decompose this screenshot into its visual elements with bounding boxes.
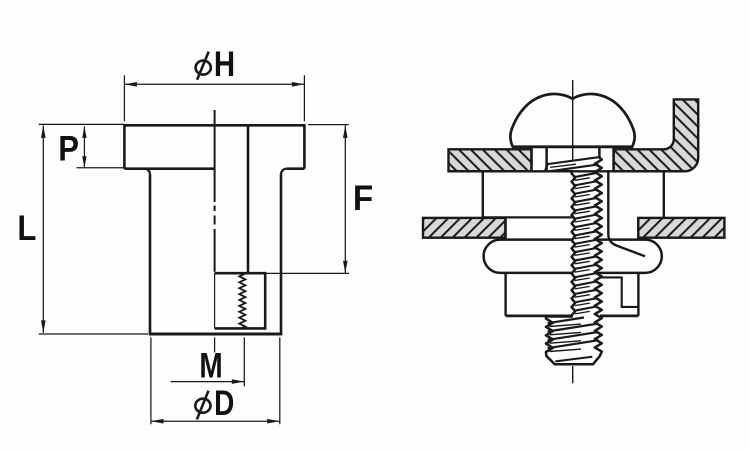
extension line M right below body — [243, 337, 245, 386]
body bottom edge — [149, 333, 283, 336]
dimension M arrow line (arrow at right end) — [171, 381, 245, 383]
svg-text:M: M — [199, 346, 222, 386]
upper bracket plate left piece (hatched section) — [449, 149, 532, 171]
upper bracket plate right piece with L-bend (hatched section) — [614, 99, 699, 171]
extension line phiD left below body — [150, 337, 152, 424]
internal thread zigzag symbol — [239, 273, 245, 328]
rivet nut flange left edge (installed view) — [482, 171, 484, 217]
pan head screw dome outline — [510, 94, 634, 147]
nut body wall left through panel hole — [504, 217, 506, 316]
extension line phiH right — [303, 75, 305, 121]
flange underside left segment with fillet into body wall — [124, 167, 214, 170]
centerline of left view (dash-dot) — [214, 110, 216, 272]
svg-text:H: H — [214, 44, 235, 83]
extension line phiD right below body — [279, 337, 281, 424]
bracket hole left edge stub — [530, 147, 532, 171]
dimension L arrow line — [42, 125, 44, 333]
screw head bearing base line — [512, 145, 633, 148]
lower panel left piece (hatched section) — [423, 218, 505, 238]
extension line P bottom (flange underside produced left) — [77, 167, 125, 169]
assembly centerline upper segment — [572, 80, 574, 160]
deformed bulge of rivet nut (stadium) — [484, 240, 662, 273]
screw shank and thread profile (white fill) — [546, 147, 602, 364]
extension line M left (centerline produced down) — [214, 337, 216, 352]
svg-text:L: L — [17, 210, 36, 249]
extension line L bottom (body bottom produced left) — [39, 333, 148, 335]
rivet nut flange right edge (installed view) — [663, 171, 665, 218]
extension line phiH left — [123, 75, 125, 121]
nut internal thread relief step (section right half) — [600, 277, 638, 307]
extension line F bottom (thread start produced right) — [265, 272, 349, 274]
flange underside right segment with fillet into body wall — [287, 167, 305, 170]
nut bottom edge left of screw — [506, 314, 573, 317]
bore right wall (half section) — [247, 125, 250, 273]
assembly centerline lower segment — [572, 366, 574, 383]
dimension F arrow line — [344, 125, 346, 273]
bracket hole right edge stub — [612, 147, 614, 171]
bracket bottom / flange top line — [449, 170, 685, 172]
svg-text:F: F — [353, 179, 373, 218]
label phiD — [195, 399, 210, 413]
threaded section box — [215, 273, 266, 328]
dimension P arrow line — [83, 126, 85, 167]
flange underside / lower panel seat line (visible left of screw) — [483, 216, 573, 218]
svg-text:D: D — [214, 383, 234, 423]
rivet nut flange outline (left view) — [124, 125, 304, 168]
nut bottom edge right of screw — [600, 314, 638, 317]
label phiH — [196, 61, 211, 75]
extension line top-left (flange top produced left) — [39, 123, 125, 125]
dimension phiH arrow line — [124, 83, 304, 85]
svg-text:P: P — [58, 130, 79, 169]
screw thread crest lines — [548, 157, 598, 164]
dimension phiD arrow line — [151, 420, 280, 422]
extension line F top (flange top produced right) — [308, 124, 349, 126]
lower panel right piece (hatched section) — [638, 218, 724, 238]
body left wall — [149, 174, 152, 334]
body right wall — [280, 174, 283, 334]
nut bore wall folded outward (section right half) — [608, 171, 645, 256]
nut body wall right through panel hole — [637, 217, 639, 316]
